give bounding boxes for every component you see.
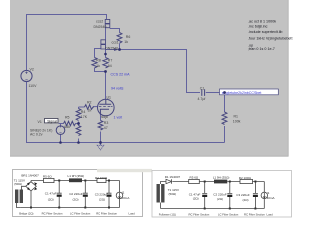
svg-text:ccs2: ccs2 <box>96 20 103 24</box>
svg-text:R7: R7 <box>108 58 113 62</box>
svg-text:1k: 1k <box>124 40 128 44</box>
resistor R3 cathode <box>98 121 103 131</box>
wire plate column <box>105 72 107 100</box>
svg-text:68k: 68k <box>64 125 70 129</box>
wire V1 bottom <box>60 135 62 143</box>
svg-text:47: 47 <box>104 126 108 130</box>
transistor ccs1 DN2540 <box>101 40 106 49</box>
wire ground stub <box>100 143 102 146</box>
svg-text:LC Filter Section: LC Filter Section <box>218 213 239 217</box>
svg-text:RC Filter Section: RC Filter Section <box>96 211 117 215</box>
svg-text:Fullwave (1Ω): Fullwave (1Ω) <box>159 213 176 217</box>
svg-text:Bridge (2Ω): Bridge (2Ω) <box>19 211 33 215</box>
svg-text:LC Filter Section: LC Filter Section <box>70 211 91 215</box>
svg-text:94: 94 <box>108 64 112 68</box>
net label output node <box>220 89 279 95</box>
wire left rail lower <box>26 82 28 143</box>
voltage source V1 <box>56 126 65 135</box>
net flag Signal <box>45 119 59 124</box>
resistor R8 <box>92 58 97 68</box>
svg-text:.four 1kHz V(singletubebett: .four 1kHz V(singletubebett <box>248 36 292 40</box>
current source I1 <box>116 192 123 199</box>
bridge BR1 <box>26 182 37 191</box>
capacitor C1b branch <box>202 182 207 209</box>
frame left psu <box>13 170 143 217</box>
svg-text:(2Ω): (2Ω) <box>193 197 199 201</box>
svg-text:50mA: 50mA <box>121 196 130 200</box>
transformer T1 leads <box>17 186 26 207</box>
load I1 branch <box>119 181 121 208</box>
svg-text:RC Filter Section: RC Filter Section <box>189 213 210 217</box>
capacitor C1 branch <box>57 181 62 208</box>
resistor R9 <box>76 126 81 136</box>
wire C1 to output node <box>206 92 225 94</box>
wire V1 top <box>60 124 62 126</box>
diode D1 <box>166 179 172 183</box>
capacitor C2b branch <box>227 182 232 209</box>
svg-text:R5 6Ω: R5 6Ω <box>43 174 52 178</box>
wire top rail left psu <box>31 180 120 182</box>
svg-text:ccs1: ccs1 <box>112 40 119 44</box>
wire below R8 R7 <box>95 68 106 72</box>
svg-text:40mA: 40mA <box>267 196 276 200</box>
svg-text:R2 100Ω: R2 100Ω <box>239 176 252 180</box>
wire top rail <box>26 15 107 20</box>
svg-text:R1: R1 <box>234 114 239 118</box>
wire ccs2 to ccs1 <box>105 28 107 40</box>
svg-text:94 volts: 94 volts <box>111 86 124 90</box>
rail junction squares right <box>204 181 257 210</box>
wire bottom rail right psu <box>161 203 265 209</box>
svg-text:L1 9H (35Ω): L1 9H (35Ω) <box>68 174 85 178</box>
inductor L1b <box>214 180 227 184</box>
svg-text:.ac oct 8 1 1000k: .ac oct 8 1 1000k <box>248 19 276 23</box>
bridge bottom lead <box>30 181 32 208</box>
cap polarized plates <box>57 195 62 197</box>
svg-text:I1: I1 <box>122 191 125 195</box>
svg-text:1 volt: 1 volt <box>114 115 123 119</box>
wire ccs2 source to R6 <box>110 29 120 33</box>
svg-text:6dj8: 6dj8 <box>101 115 108 119</box>
wire R5 stubs <box>59 123 64 125</box>
svg-text:DN2540: DN2540 <box>94 25 107 29</box>
light streak <box>97 169 152 172</box>
resistor R2b box <box>240 179 253 183</box>
svg-text:.include supertexlt.lib: .include supertexlt.lib <box>248 30 282 34</box>
svg-text:1k: 1k <box>88 109 92 113</box>
svg-text:Load: Load <box>129 211 136 215</box>
svg-text:RC Filter Section: RC Filter Section <box>244 213 265 217</box>
svg-text:(2Ω): (2Ω) <box>217 197 223 201</box>
wire cathode lead <box>100 115 102 120</box>
svg-text:R6: R6 <box>126 35 131 39</box>
svg-text:DN2540: DN2540 <box>105 46 118 50</box>
resistor R5 <box>64 121 76 125</box>
svg-text:100k: 100k <box>233 119 241 123</box>
transformer T1b windings <box>157 184 160 203</box>
svg-text:U1: U1 <box>107 96 112 100</box>
wire output horizontal <box>120 50 201 93</box>
svg-text:C3 220uF: C3 220uF <box>236 193 250 197</box>
load I1b branch <box>263 182 265 209</box>
svg-text:R5 6Ω: R5 6Ω <box>190 176 199 180</box>
svg-text:(2Ω): (2Ω) <box>73 197 79 201</box>
wire R1 column <box>224 93 226 113</box>
triode U1 <box>98 99 115 116</box>
svg-text:1k: 1k <box>96 64 100 68</box>
current source I1b <box>261 192 267 198</box>
wire ccs1 source leg <box>105 49 107 58</box>
svg-text:C2 220uF: C2 220uF <box>213 192 227 196</box>
svg-text:(50Ω): (50Ω) <box>169 192 177 196</box>
svg-text:R3: R3 <box>104 121 109 125</box>
resistor R2 <box>85 105 95 110</box>
wire cathode to rail <box>100 132 102 143</box>
svg-text:Signal: Signal <box>47 119 57 123</box>
wire bottom rail left psu <box>21 207 120 209</box>
junction dots <box>59 48 121 144</box>
svg-text:C3 220uF: C3 220uF <box>95 193 109 197</box>
wire grid lead <box>93 106 98 108</box>
svg-text:(2Ω): (2Ω) <box>99 198 105 202</box>
svg-text:C1: C1 <box>200 87 205 91</box>
rail junction squares <box>30 180 110 209</box>
svg-text:CCS 22 mA: CCS 22 mA <box>111 72 131 76</box>
resistor R2 box <box>97 178 106 182</box>
svg-text:(50Ω): (50Ω) <box>14 182 22 186</box>
resistor R5b box <box>189 179 200 183</box>
wire top rail right psu <box>161 182 265 185</box>
wire R2 left stub <box>79 106 85 108</box>
transistor ccs2 DN2540 <box>105 19 110 27</box>
resistor R7 <box>103 58 108 68</box>
wire ccs1 gate leg <box>95 49 101 58</box>
resistor R4 <box>76 109 81 121</box>
svg-text:AC 0.2v: AC 0.2v <box>30 133 43 137</box>
mosfet source arrow <box>114 48 119 51</box>
ground <box>97 145 104 150</box>
wire input column R9 <box>78 139 80 143</box>
spice directives <box>248 19 292 51</box>
svg-text:BR1 1N4007: BR1 1N4007 <box>21 173 39 177</box>
voltage source V2 <box>21 70 32 81</box>
capacitor C3b branch <box>253 182 258 209</box>
svg-text:singletube2k2lnbCCSbet: singletube2k2lnbCCSbet <box>222 91 262 95</box>
svg-text:V2: V2 <box>30 68 34 72</box>
svg-text:C2 220uF: C2 220uF <box>69 192 83 196</box>
capacitor C2 branch <box>83 181 88 208</box>
inductor L1 <box>69 178 82 182</box>
wire left rail upper <box>26 14 28 71</box>
resistor R1 <box>222 112 227 125</box>
svg-text:;tran 0 1s 0 1e-7: ;tran 0 1s 0 1e-7 <box>248 47 275 51</box>
svg-text:RC Filter Section: RC Filter Section <box>42 211 63 215</box>
svg-text:(2Ω): (2Ω) <box>243 198 249 202</box>
bridge diode ticks <box>27 182 37 190</box>
svg-text:R4: R4 <box>81 110 86 114</box>
wire input column R4 <box>78 107 80 109</box>
svg-text:(2Ω): (2Ω) <box>48 197 54 201</box>
cap polarized plates right <box>202 195 207 197</box>
svg-text:R5: R5 <box>65 116 70 120</box>
svg-text:R2: R2 <box>87 100 92 104</box>
I1b arrow <box>263 193 265 198</box>
resistor R6 <box>117 33 122 44</box>
canvas shadow edges <box>10 0 289 157</box>
junction output node <box>223 91 226 94</box>
transformer T1 windings <box>15 190 18 204</box>
capacitor C3 branch <box>107 181 112 208</box>
svg-text:110V: 110V <box>29 84 38 88</box>
frame right psu <box>152 171 292 218</box>
wire bottom rail <box>26 142 225 144</box>
svg-text:C1 47uF: C1 47uF <box>45 191 57 195</box>
I1 arrow <box>118 193 120 198</box>
svg-text:I1: I1 <box>267 191 270 195</box>
svg-text:V1: V1 <box>38 120 42 124</box>
resistor R5 box <box>44 178 55 182</box>
capacitor C1 <box>202 89 205 96</box>
svg-text:17K: 17K <box>81 115 88 119</box>
svg-text:R8: R8 <box>96 58 101 62</box>
schematic gray background <box>10 0 289 157</box>
svg-text:D1 1N4007: D1 1N4007 <box>165 175 181 179</box>
svg-text:R2 100Ω: R2 100Ω <box>95 176 108 180</box>
svg-text:4.7µf: 4.7µf <box>198 97 206 101</box>
svg-text:L1 9H (35Ω): L1 9H (35Ω) <box>213 176 230 180</box>
wire R6 bottom <box>119 44 121 50</box>
svg-text:Load: Load <box>267 213 274 217</box>
svg-text:.inc 6dj8.inc: .inc 6dj8.inc <box>248 25 268 29</box>
